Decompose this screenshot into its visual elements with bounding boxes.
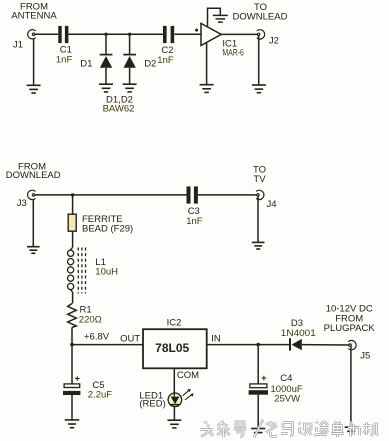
connector J4 [256,190,264,199]
connector J1 [28,30,36,39]
ground at J3 [27,247,40,254]
svg-text:C4: C4 [280,373,292,384]
label C5 2.2uF [88,380,112,400]
wire J1 to C1 [35,33,58,35]
svg-text:+: + [75,373,80,383]
connector J3 [28,190,36,199]
label LED1 (RED) [139,390,165,409]
ground at LED1 [173,406,175,420]
ground at IC1 top [213,15,228,22]
capacitor C1 [58,26,68,43]
wire J5 down [350,346,352,427]
svg-text:25VW: 25VW [274,394,300,405]
svg-text:D1: D1 [80,58,92,69]
svg-text:1nF: 1nF [56,55,73,66]
node C4 junction [256,343,260,347]
ground at D1 [99,84,113,92]
svg-text:J4: J4 [267,199,277,210]
diode D2 [123,34,136,84]
wire OUT [72,344,143,346]
label FROM ANTENNA [11,1,57,21]
diode D1 [100,34,113,84]
svg-text:DOWNLEAD: DOWNLEAD [233,12,288,23]
wire J1 down [33,39,35,85]
node D1 junction [104,33,107,36]
inductor L1 [68,248,86,294]
svg-text:220Ω: 220Ω [79,315,102,326]
svg-text:1nF: 1nF [157,55,174,66]
ground at J5 [345,427,358,431]
label D3 1N4001 [281,318,316,339]
svg-text:MAR-6: MAR-6 [222,48,244,59]
svg-text:+: + [261,373,266,383]
capacitor C2 [163,26,174,43]
svg-text:IC2: IC2 [167,317,182,328]
ground at D2 [123,84,137,92]
svg-text:DOWNLEAD: DOWNLEAD [6,170,61,181]
svg-text:(RED): (RED) [139,399,165,410]
node +6.8V junction [70,343,74,347]
ground at J4 [252,242,265,249]
label R1 220ohm [79,304,102,325]
svg-text:BAW62: BAW62 [103,104,135,115]
ground at C5 [65,420,80,428]
wire J2 down [258,36,260,85]
wire C1 to C2 [68,33,163,35]
ground at J1 [27,85,41,93]
connector J5 [348,340,356,349]
svg-text:ANTENNA: ANTENNA [11,11,57,22]
capacitor C3 [187,186,198,203]
svg-text:10uH: 10uH [95,267,118,278]
svg-text:J1: J1 [13,39,23,50]
svg-text:IN: IN [211,334,221,345]
svg-text:PLUGPACK: PLUGPACK [324,323,376,334]
wire J3 down [32,200,34,247]
LED1 [168,393,182,407]
svg-text:1N4001: 1N4001 [281,328,316,339]
op-amp IC1 [201,23,221,45]
node ferrite junction [71,193,74,196]
label C1 1nF [56,45,73,66]
wire J4 down [257,196,259,242]
label C3 1nF [186,206,203,227]
label TO TV [253,164,266,185]
wire IC1 top bias [208,8,221,27]
wire IN [207,344,290,346]
svg-text:J5: J5 [360,350,370,361]
diode D3 [289,338,291,350]
svg-text:78L05: 78L05 [155,341,189,355]
svg-text:COM: COM [177,370,199,381]
label D1,D2 BAW62 [103,94,135,114]
ground at J2 [252,85,266,93]
capacitor C5 [71,345,73,384]
wire C2 to IC1 [175,33,201,35]
svg-text:TV: TV [253,174,266,185]
wire J3 to C3 [35,194,187,196]
wire COM down [173,368,175,393]
ground at IC1 [200,85,214,93]
connector J2 [257,30,265,39]
wire C3 to J4 [198,194,257,196]
resistor R1 [68,304,77,328]
node D2 junction [128,33,131,36]
ground at C4 [251,429,265,433]
svg-text:BEAD (F29): BEAD (F29) [82,224,133,235]
label FROM DOWNLEAD [6,161,61,181]
svg-text:OUT: OUT [120,334,140,345]
label IC1 MAR-6 [222,38,244,58]
svg-text:J3: J3 [17,198,27,209]
svg-text:J2: J2 [269,35,279,46]
label 10-12V DC FROM PLUGPACK [324,304,376,335]
svg-text:2.2uF: 2.2uF [88,389,112,400]
capacitor C4 [257,345,259,384]
regulator IC2 [143,329,207,368]
wire IC1 to J2 [221,33,257,35]
wire IC1 bottom [206,43,208,85]
svg-text:D2: D2 [144,58,156,69]
svg-text:+6.8V: +6.8V [84,331,110,342]
label TO DOWNLEAD [233,2,288,23]
pin 1 dot [195,29,198,32]
label L1 10uH [95,257,118,278]
svg-text:1nF: 1nF [186,216,203,227]
label FERRITE BEAD (F29) [82,214,133,235]
ferrite bead FB [72,195,74,214]
label C4 1000uF 25VW [271,373,303,405]
label C2 1nF [157,45,174,66]
